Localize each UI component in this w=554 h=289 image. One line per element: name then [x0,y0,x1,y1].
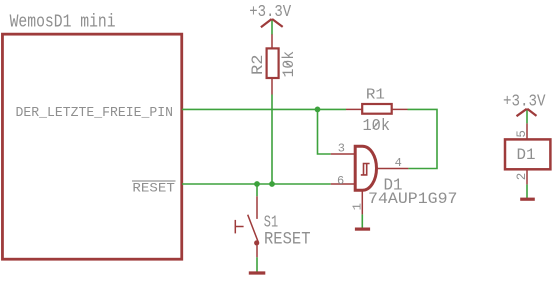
resistor R1 lead left [346,108,362,110]
resistor R1 lead right [393,108,408,110]
ground symbol below gate [355,228,370,231]
svg-text:WemosD1 mini: WemosD1 mini [10,12,116,33]
power +3.3V top chevron symbol [261,19,283,27]
IC U1 WemosD1 mini box [2,34,181,259]
wire RESET net to S1 [256,184,258,196]
svg-text:R2: R2 [249,55,267,76]
gate D1 pin 4 lead [377,168,408,170]
switch S1 top pin lead [256,196,258,219]
svg-text:S1: S1 [264,212,278,231]
svg-text:4: 4 [395,156,402,170]
resistor R2 body [267,48,279,78]
switch S1 lever [248,215,258,242]
svg-text:R1: R1 [366,88,385,104]
switch S1 contact dot [254,240,259,245]
svg-text:5: 5 [515,130,529,138]
gate D1 body (74AUP1G97) [355,146,376,190]
svg-text:6: 6 [337,174,344,188]
schmitt trigger hysteresis symbol [364,164,370,175]
svg-text:+3.3V: +3.3V [503,91,546,110]
resistor R1 body [362,104,392,114]
gate D1 pin 6 lead [331,183,355,185]
ground symbol below S1 [249,271,265,274]
device D1 box (right) [505,139,550,169]
junction node RESET/S1 [254,181,260,187]
wire net RESET horizontal [182,183,331,185]
svg-text:1: 1 [350,203,364,210]
svg-text:DER_LETZTE_FREIE_PIN: DER_LETZTE_FREIE_PIN [16,106,174,121]
wire S1 to ground [256,257,258,272]
svg-text:D1: D1 [517,146,536,164]
wire gate pin 1 to ground [361,214,363,228]
gate D1 pin 1 lead [361,190,363,214]
svg-text:RESET: RESET [132,181,175,196]
svg-text:10k: 10k [363,116,391,135]
resistor R2 lead top [271,34,273,48]
wire R1 right to gate pin 4 [408,109,438,168]
wire +3.3V to D1 pin 5 [526,109,528,123]
overline on RESET [132,180,176,182]
switch S1 bottom lead [256,245,258,257]
power +3.3V right chevron symbol [517,109,537,116]
svg-text:3: 3 [338,141,345,155]
wire R2 bottom to RESET net [271,95,273,185]
switch S1 actuator [234,220,236,234]
device D1 pin 5 lead [526,123,528,138]
junction node on DER_LETZTE net [315,107,321,113]
svg-text:RESET: RESET [264,230,311,250]
slash of zero in R1 value [373,121,379,129]
slash of zero in R2 value [285,61,292,67]
junction node RESET/R2 [269,181,275,187]
wire +3.3V to R2 top [271,20,273,35]
svg-text:2: 2 [515,173,529,181]
device D1 pin 2 lead [526,169,528,184]
wire junction down to gate pin 3 [318,109,331,154]
svg-text:+3.3V: +3.3V [249,2,291,21]
resistor R2 lead bottom [271,79,273,95]
ground symbol below right D1 [520,198,535,201]
gate D1 pin 3 lead [331,153,355,155]
svg-text:74AUP1G97: 74AUP1G97 [368,190,458,208]
wire net DER_LETZTE_FREIE_PIN horizontal [182,108,346,110]
wire D1 pin 2 to ground [526,184,528,198]
